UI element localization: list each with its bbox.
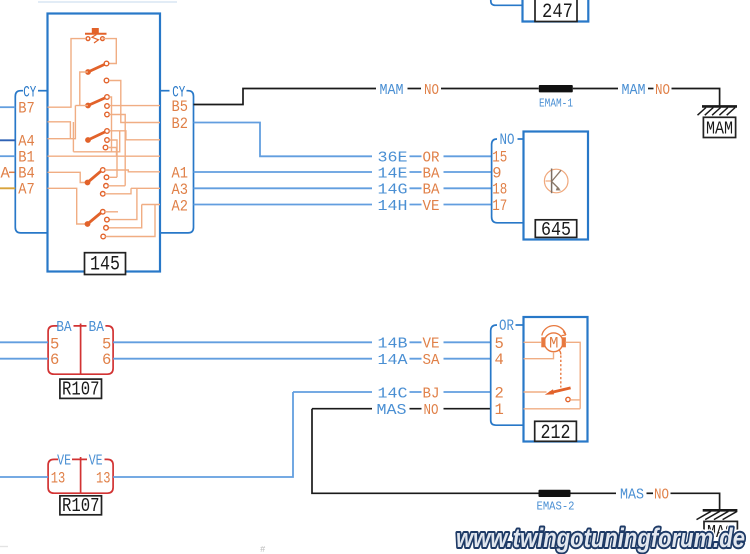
connector R107 (upper) divider <box>80 324 82 375</box>
connector R107 (upper) dashes <box>74 325 87 327</box>
svg-text:1: 1 <box>495 401 504 419</box>
internal wire S4b link <box>109 176 117 178</box>
internal wire S3 tip link <box>109 131 160 140</box>
contact S1b <box>104 78 109 83</box>
contact S5b <box>105 217 110 222</box>
connector R107 (upper) right shell <box>81 326 114 374</box>
wire to 212 pin 2 (14C BJ) <box>293 391 491 393</box>
svg-text:A: A <box>1 165 11 183</box>
internal wire A3 riser to S5b <box>109 188 137 219</box>
internal wire S1 pivot feed <box>80 72 88 105</box>
internal wire S5d riser <box>105 205 155 237</box>
svg-text:B7: B7 <box>18 99 35 117</box>
svg-text:5: 5 <box>495 335 504 353</box>
svg-text:645: 645 <box>541 219 571 241</box>
svg-text:BA: BA <box>423 183 440 199</box>
svg-text:B5: B5 <box>172 98 189 116</box>
internal wire S2 tip riser <box>109 97 111 152</box>
svg-text:6: 6 <box>50 351 59 369</box>
faint page marks bottom <box>0 546 8 548</box>
component 212 box (motor unit) <box>524 317 588 442</box>
contact S4c <box>104 184 109 189</box>
svg-text:9: 9 <box>492 164 501 182</box>
internal wire S3b riser <box>109 140 117 177</box>
internal wire A7 to S5 pivot <box>48 188 88 224</box>
svg-text:www.twingotuningforum.de: www.twingotuningforum.de <box>456 523 745 553</box>
svg-text:MAS: MAS <box>377 403 407 419</box>
svg-text:13: 13 <box>96 470 111 488</box>
wire to B1 <box>0 155 15 157</box>
svg-text:MAS: MAS <box>620 488 644 504</box>
wire to A4 <box>0 139 15 141</box>
svg-text:14H: 14H <box>378 199 408 215</box>
svg-text:R107: R107 <box>62 495 100 517</box>
wire R107 to 212 pin 4 (14A SA) <box>113 358 491 360</box>
wire to A7 <box>0 187 15 189</box>
svg-text:MAM: MAM <box>706 120 733 140</box>
mechanical dashed link motor-switch <box>559 350 561 355</box>
svg-text:2: 2 <box>495 384 504 402</box>
wire into R107 pin6 <box>0 358 48 360</box>
svg-text:R107: R107 <box>62 379 100 401</box>
internal wire S1b to B2 <box>109 81 160 123</box>
svg-text:NO: NO <box>424 403 439 419</box>
internal wire motor brush riser <box>565 342 580 409</box>
component 145 box (switch unit) <box>48 14 161 272</box>
svg-text:145: 145 <box>90 254 120 277</box>
internal wire A3 row <box>131 187 160 189</box>
svg-text:M: M <box>549 335 559 353</box>
svg-text:BA: BA <box>423 166 440 182</box>
connector R107 (lower) right shell <box>81 459 114 493</box>
ground MAM <box>698 106 738 115</box>
ground label box MAM <box>703 117 735 137</box>
switch contact S5 <box>101 210 106 215</box>
wire B2 to 645 pin 15 (36E OR) <box>194 123 373 157</box>
svg-text:13: 13 <box>51 470 66 488</box>
contact S3b <box>105 138 110 143</box>
wire A1 to 645 pin 9 (14E BA) <box>194 171 492 173</box>
svg-text:MAM: MAM <box>622 83 646 99</box>
label box R107 (upper) <box>60 379 102 398</box>
connector CY (right bracket of 145) <box>160 90 170 92</box>
svg-text:EMAS-2: EMAS-2 <box>537 500 575 514</box>
connector R107 (lower) dashes <box>72 458 87 460</box>
connector R107 (lower) divider <box>80 457 82 493</box>
connector bracket of 212 <box>491 325 524 425</box>
svg-text:VE: VE <box>423 337 440 353</box>
ground MAS <box>697 510 738 519</box>
wire splice to ground MAS <box>571 492 617 494</box>
internal wire S2c riser <box>109 115 125 186</box>
internal wire button right to contact 1 <box>103 39 117 64</box>
svg-text:NO: NO <box>424 83 439 99</box>
svg-text:A2: A2 <box>172 198 189 216</box>
symbol K (diode-lamp symbol in 645) <box>544 169 568 194</box>
connector R107 (lower) left shell <box>48 459 81 493</box>
internal wire S4 tip to A1 <box>105 170 160 172</box>
svg-text:B2: B2 <box>172 115 189 133</box>
wire 212 pin1 to ground MAS (black) <box>312 409 539 494</box>
component 247 (box cropped at top) <box>523 0 589 22</box>
splice EMAM-1 <box>539 85 573 92</box>
internal wire S2b to B5 <box>109 105 160 107</box>
wire into R107 lower pin13 <box>0 476 48 478</box>
internal wire S3c link <box>108 148 117 157</box>
wire B5 to ground MAM (black) <box>194 89 377 105</box>
label box 645 <box>535 220 576 238</box>
svg-text:14B: 14B <box>378 337 408 353</box>
internal wire B7 to button <box>48 39 86 108</box>
internal wire cross link <box>73 122 119 152</box>
svg-text:4: 4 <box>495 351 504 369</box>
wire to B7 <box>0 106 15 108</box>
component 645 box <box>524 132 589 240</box>
wire into R107 pin5 <box>0 341 48 343</box>
svg-text:A7: A7 <box>18 181 35 199</box>
svg-text:VE: VE <box>57 452 71 469</box>
internal wire S4c link <box>108 185 125 187</box>
svg-text:NO: NO <box>654 488 669 504</box>
svg-text:14G: 14G <box>378 183 408 199</box>
push-button actuator (145 internal) <box>92 28 99 34</box>
wire R107 to 212 pin 5 (14B VE) <box>113 341 491 343</box>
svg-text:14E: 14E <box>378 166 408 182</box>
svg-text:NO: NO <box>500 131 515 149</box>
motor M symbol (212 internal) <box>541 326 566 352</box>
svg-text:36E: 36E <box>378 151 408 167</box>
svg-text:VE: VE <box>423 199 440 215</box>
svg-text:14C: 14C <box>378 386 408 402</box>
svg-text:6: 6 <box>102 351 111 369</box>
svg-text:BA: BA <box>89 319 105 336</box>
wire R107 lower to 212 pin2 riser <box>113 392 293 477</box>
contact S5c <box>104 226 109 231</box>
label box 247 <box>535 0 577 22</box>
wire splice to ground <box>573 88 618 90</box>
label box 212 <box>535 421 577 441</box>
connector bracket stub to 247 <box>491 0 523 5</box>
svg-text:SA: SA <box>423 353 440 369</box>
switch contact S2 <box>105 95 110 100</box>
internal wire pin5 to motor <box>524 341 542 343</box>
internal wire B4 to S4 pivot <box>48 172 88 182</box>
splice EMAS-2 <box>539 490 571 497</box>
internal wire contact to riser <box>570 399 580 401</box>
switch in 212 <box>550 388 571 393</box>
switch contact S4 <box>101 168 106 173</box>
svg-text:BA: BA <box>56 319 71 336</box>
svg-text:OR: OR <box>499 317 514 335</box>
contact S4b <box>104 175 109 180</box>
internal wire A2 riser to S5c <box>108 205 141 228</box>
contact S2c <box>105 112 110 117</box>
internal wire pin2 to switch pivot <box>524 391 547 393</box>
internal wire stub row <box>48 122 71 139</box>
internal wire A2 row <box>142 204 160 206</box>
label box R107 (lower) <box>60 496 102 515</box>
svg-text:NO: NO <box>655 83 670 99</box>
internal wire pin4 to motor <box>524 352 554 359</box>
push-button terminal right <box>101 37 105 41</box>
svg-text:VE: VE <box>89 452 103 469</box>
svg-text:OR: OR <box>423 151 440 167</box>
ground label box MAS <box>704 521 737 541</box>
wire to 212 pin 1 (MAS NO black) <box>312 408 491 410</box>
svg-text:17: 17 <box>492 197 507 215</box>
wire A3 to 645 pin 18 (14G BA) <box>194 187 492 189</box>
push-button terminal left <box>86 37 90 41</box>
internal wire B1 row <box>48 155 161 157</box>
wire A2 to 645 pin 17 (14H VE) <box>194 204 492 206</box>
svg-text:#: # <box>260 545 266 554</box>
internal wire S5 tip stub <box>105 211 118 213</box>
internal wire S2 pivot to A4 riser <box>75 105 88 107</box>
switch contact S3 <box>105 129 110 134</box>
connector R107 (upper) left shell <box>48 326 81 374</box>
internal wire S4d to A3 <box>105 188 131 194</box>
svg-text:247: 247 <box>542 1 573 24</box>
connector CY (left bracket of 145) <box>38 90 48 92</box>
svg-text:MAM: MAM <box>380 83 404 99</box>
connector bracket of 645 <box>492 139 524 223</box>
svg-text:A1: A1 <box>172 165 189 183</box>
svg-text:EMAM-1: EMAM-1 <box>539 96 573 110</box>
internal wire pin1 row <box>524 408 581 410</box>
internal wire A4 row <box>48 106 76 139</box>
svg-text:18: 18 <box>492 181 507 199</box>
label box 145 <box>85 253 126 275</box>
watermark www.twingotuningforum.de <box>456 523 745 553</box>
contact S2b <box>105 104 110 109</box>
contact S5d <box>101 234 106 239</box>
svg-text:A3: A3 <box>172 181 189 199</box>
contact S4d <box>101 192 106 197</box>
svg-text:212: 212 <box>541 422 571 445</box>
svg-text:14A: 14A <box>378 353 408 369</box>
contact S3c <box>103 145 108 150</box>
svg-text:BJ: BJ <box>423 386 440 402</box>
switch contact S1 <box>104 61 109 66</box>
faint cropped element at top-left edge <box>38 1 177 3</box>
